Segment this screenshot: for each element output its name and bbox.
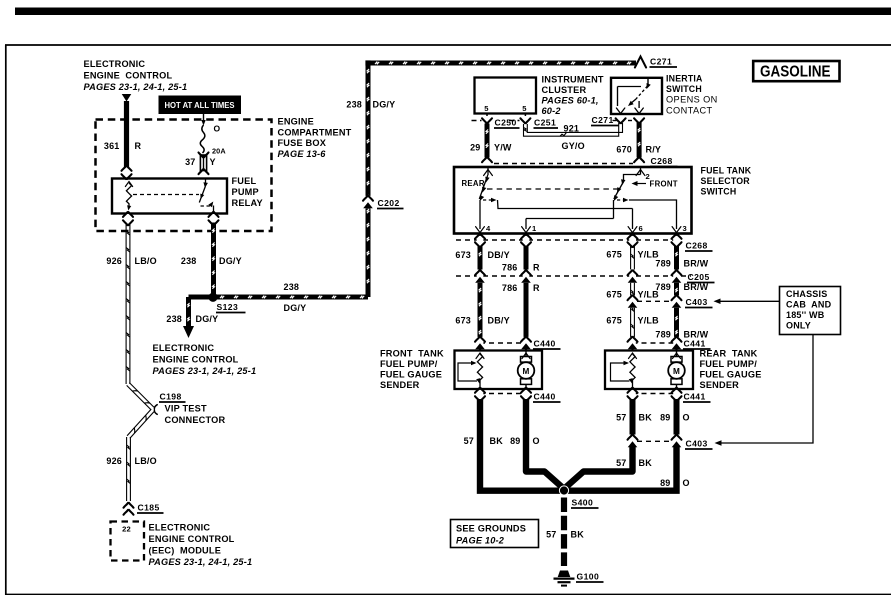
svg-text:238: 238 bbox=[346, 100, 362, 110]
svg-text:238: 238 bbox=[181, 256, 197, 266]
svg-text:PAGE 13-6: PAGE 13-6 bbox=[278, 149, 327, 159]
svg-text:C440: C440 bbox=[534, 339, 556, 349]
svg-text:675: 675 bbox=[606, 316, 622, 326]
svg-text:5: 5 bbox=[522, 104, 527, 113]
svg-text:M: M bbox=[522, 367, 529, 376]
svg-text:89: 89 bbox=[660, 478, 670, 488]
svg-text:C198: C198 bbox=[160, 392, 182, 402]
svg-text:R: R bbox=[533, 263, 540, 273]
svg-text:Y/LB: Y/LB bbox=[638, 316, 660, 326]
svg-text:INSTRUMENT: INSTRUMENT bbox=[542, 75, 604, 85]
svg-text:FUEL PUMP/: FUEL PUMP/ bbox=[700, 359, 758, 369]
svg-text:FUEL GAUGE: FUEL GAUGE bbox=[700, 370, 762, 380]
svg-text:673: 673 bbox=[455, 316, 471, 326]
svg-text:C403: C403 bbox=[686, 439, 708, 449]
svg-text:LB/O: LB/O bbox=[135, 256, 157, 266]
svg-text:PUMP: PUMP bbox=[232, 187, 259, 197]
svg-text:DG/Y: DG/Y bbox=[373, 100, 396, 110]
svg-text:DG/Y: DG/Y bbox=[284, 303, 307, 313]
svg-text:LB/O: LB/O bbox=[135, 456, 157, 466]
svg-text:Y: Y bbox=[210, 157, 216, 167]
svg-text:ENGINE: ENGINE bbox=[278, 117, 314, 127]
svg-text:60-2: 60-2 bbox=[542, 106, 562, 116]
svg-text:GY/O: GY/O bbox=[562, 141, 585, 151]
svg-text:57: 57 bbox=[616, 413, 626, 423]
svg-text:FUEL GAUGE: FUEL GAUGE bbox=[380, 370, 442, 380]
svg-text:ONLY: ONLY bbox=[786, 321, 811, 331]
svg-text:BR/W: BR/W bbox=[684, 259, 709, 269]
svg-text:C250: C250 bbox=[495, 118, 517, 128]
svg-text:37: 37 bbox=[185, 157, 195, 167]
svg-text:CONNECTOR: CONNECTOR bbox=[165, 415, 226, 425]
svg-text:89: 89 bbox=[660, 413, 670, 423]
svg-text:Y/LB: Y/LB bbox=[638, 290, 660, 300]
svg-text:G100: G100 bbox=[577, 572, 600, 582]
svg-text:BK: BK bbox=[639, 413, 653, 423]
svg-text:786: 786 bbox=[502, 263, 518, 273]
svg-text:BR/W: BR/W bbox=[684, 282, 709, 292]
svg-text:ELECTRONIC: ELECTRONIC bbox=[84, 59, 146, 69]
svg-text:6: 6 bbox=[639, 224, 643, 233]
svg-text:REAR: REAR bbox=[462, 179, 485, 188]
svg-text:C202: C202 bbox=[378, 198, 400, 208]
svg-text:COMPARTMENT: COMPARTMENT bbox=[278, 128, 352, 138]
svg-text:CAB AND: CAB AND bbox=[786, 300, 832, 310]
svg-text:DB/Y: DB/Y bbox=[488, 316, 510, 326]
svg-text:361: 361 bbox=[104, 141, 120, 151]
svg-text:CLUSTER: CLUSTER bbox=[542, 85, 587, 95]
svg-text:FUSE BOX: FUSE BOX bbox=[278, 138, 327, 148]
svg-text:S400: S400 bbox=[572, 498, 594, 508]
svg-text:SWITCH: SWITCH bbox=[701, 187, 737, 197]
svg-text:SELECTOR: SELECTOR bbox=[701, 176, 751, 186]
svg-text:FUEL PUMP/: FUEL PUMP/ bbox=[380, 359, 438, 369]
svg-text:O: O bbox=[533, 436, 540, 446]
svg-text:PAGE 10-2: PAGE 10-2 bbox=[456, 536, 505, 546]
svg-text:C268: C268 bbox=[686, 241, 708, 251]
svg-text:PAGES 23-1, 24-1, 25-1: PAGES 23-1, 24-1, 25-1 bbox=[153, 366, 257, 376]
svg-text:SENDER: SENDER bbox=[380, 380, 420, 390]
svg-text:DB/Y: DB/Y bbox=[488, 250, 510, 260]
svg-text:REAR TANK: REAR TANK bbox=[700, 349, 758, 359]
svg-text:PAGES 23-1, 24-1, 25-1: PAGES 23-1, 24-1, 25-1 bbox=[149, 557, 253, 567]
svg-text:OPENS ON: OPENS ON bbox=[666, 95, 718, 105]
svg-text:789: 789 bbox=[655, 259, 671, 269]
svg-text:ELECTRONIC: ELECTRONIC bbox=[153, 343, 215, 353]
svg-text:R/Y: R/Y bbox=[646, 145, 662, 155]
svg-text:CHASSIS: CHASSIS bbox=[786, 289, 827, 299]
svg-text:FUEL TANK: FUEL TANK bbox=[701, 166, 752, 176]
svg-text:RELAY: RELAY bbox=[232, 198, 263, 208]
svg-text:FUEL: FUEL bbox=[232, 176, 257, 186]
svg-text:238: 238 bbox=[284, 282, 300, 292]
svg-text:SEE GROUNDS: SEE GROUNDS bbox=[456, 524, 526, 534]
svg-text:FRONT: FRONT bbox=[650, 180, 678, 189]
svg-text:ENGINE CONTROL: ENGINE CONTROL bbox=[149, 534, 235, 544]
svg-text:C271: C271 bbox=[592, 115, 614, 125]
svg-text:FRONT TANK: FRONT TANK bbox=[380, 349, 444, 359]
svg-text:22: 22 bbox=[122, 525, 131, 534]
svg-text:BK: BK bbox=[490, 436, 504, 446]
svg-text:SENDER: SENDER bbox=[700, 380, 740, 390]
svg-text:1: 1 bbox=[532, 224, 537, 233]
svg-text:SWITCH: SWITCH bbox=[666, 84, 702, 94]
svg-text:29: 29 bbox=[470, 143, 480, 153]
svg-text:ENGINE CONTROL: ENGINE CONTROL bbox=[84, 71, 173, 81]
svg-text:BK: BK bbox=[639, 458, 653, 468]
svg-text:C268: C268 bbox=[651, 156, 673, 166]
svg-text:789: 789 bbox=[655, 330, 671, 340]
svg-text:DG/Y: DG/Y bbox=[196, 314, 219, 324]
svg-text:PAGES 60-1,: PAGES 60-1, bbox=[542, 96, 599, 106]
svg-text:HOT AT ALL TIMES: HOT AT ALL TIMES bbox=[165, 101, 236, 110]
svg-text:R: R bbox=[533, 283, 540, 293]
svg-text:O: O bbox=[683, 413, 690, 423]
svg-text:PAGES 23-1, 24-1, 25-1: PAGES 23-1, 24-1, 25-1 bbox=[84, 82, 188, 92]
svg-text:R: R bbox=[135, 141, 142, 151]
svg-text:89: 89 bbox=[510, 436, 520, 446]
svg-text:BK: BK bbox=[571, 530, 585, 540]
svg-text:3: 3 bbox=[683, 224, 687, 233]
svg-text:VIP TEST: VIP TEST bbox=[165, 404, 207, 414]
svg-text:57: 57 bbox=[616, 458, 626, 468]
svg-text:Y/W: Y/W bbox=[494, 143, 512, 153]
svg-text:C185: C185 bbox=[138, 503, 160, 513]
svg-text:238: 238 bbox=[166, 314, 182, 324]
svg-text:GASOLINE: GASOLINE bbox=[760, 64, 831, 81]
svg-text:57: 57 bbox=[464, 436, 474, 446]
svg-text:ENGINE CONTROL: ENGINE CONTROL bbox=[153, 355, 239, 365]
svg-text:O: O bbox=[683, 478, 690, 488]
svg-text:DG/Y: DG/Y bbox=[219, 256, 242, 266]
svg-text:C403: C403 bbox=[686, 297, 708, 307]
svg-text:S123: S123 bbox=[217, 302, 239, 312]
svg-text:CONTACT: CONTACT bbox=[666, 106, 713, 116]
svg-text:4: 4 bbox=[486, 224, 491, 233]
svg-text:675: 675 bbox=[606, 290, 622, 300]
svg-text:673: 673 bbox=[455, 250, 471, 260]
svg-text:C251: C251 bbox=[534, 118, 556, 128]
svg-text:675: 675 bbox=[606, 250, 622, 260]
svg-text:INERTIA: INERTIA bbox=[666, 74, 703, 84]
svg-text:926: 926 bbox=[106, 456, 122, 466]
svg-text:786: 786 bbox=[502, 283, 518, 293]
svg-text:926: 926 bbox=[106, 256, 122, 266]
svg-text:C271: C271 bbox=[650, 57, 672, 67]
svg-text:C441: C441 bbox=[684, 339, 706, 349]
svg-text:ELECTRONIC: ELECTRONIC bbox=[149, 523, 211, 533]
svg-text:57: 57 bbox=[546, 530, 556, 540]
svg-text:C205: C205 bbox=[688, 272, 710, 282]
svg-text:670: 670 bbox=[616, 145, 632, 155]
svg-text:20A: 20A bbox=[212, 147, 226, 156]
svg-text:185'' WB: 185'' WB bbox=[786, 310, 825, 320]
svg-text:C440: C440 bbox=[534, 392, 556, 402]
svg-text:C441: C441 bbox=[684, 392, 706, 402]
svg-text:O: O bbox=[214, 124, 221, 134]
svg-text:(EEC) MODULE: (EEC) MODULE bbox=[149, 546, 222, 556]
svg-text:5: 5 bbox=[484, 104, 489, 113]
svg-text:M: M bbox=[673, 367, 680, 376]
